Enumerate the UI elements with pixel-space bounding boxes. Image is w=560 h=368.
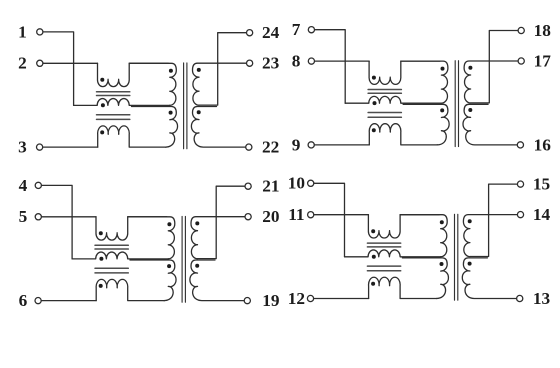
phase dot primary upper T2 bbox=[441, 67, 445, 71]
choke core lines (upper pair) T2 bbox=[368, 90, 401, 94]
pin 22 terminal circle bbox=[246, 144, 252, 150]
pin 3 terminal circle bbox=[37, 144, 43, 150]
secondary winding T2 lower half and wire to pin 16 bbox=[463, 104, 517, 145]
phase dot primary lower T2 bbox=[440, 108, 444, 112]
primary winding T4 upper half bbox=[400, 215, 447, 257]
transformer T1 core bbox=[184, 63, 187, 149]
choke winding T1B (middle, 3 turns) bbox=[74, 99, 170, 106]
pin 12 terminal circle bbox=[307, 295, 313, 301]
svg-text:12: 12 bbox=[288, 289, 305, 308]
pin 1 terminal circle bbox=[37, 29, 43, 35]
phase dot primary lower T4 bbox=[440, 262, 444, 266]
phase dot winding T2C bbox=[372, 128, 376, 132]
phase dot winding T2A bbox=[372, 76, 376, 80]
secondary winding T4 upper half and wire to pin 14 bbox=[463, 215, 517, 257]
svg-text:7: 7 bbox=[292, 20, 301, 39]
primary winding T2 upper half bbox=[401, 61, 448, 103]
phase dot winding T1C bbox=[100, 130, 104, 134]
svg-text:2: 2 bbox=[18, 54, 27, 73]
phase dot secondary lower T3 bbox=[195, 264, 199, 268]
phase dot winding T4A bbox=[371, 229, 375, 233]
phase dot primary lower T1 bbox=[169, 111, 173, 115]
phase dot secondary lower T4 bbox=[468, 262, 472, 266]
secondary winding T4 lower half and wire to pin 13 bbox=[462, 258, 516, 299]
pin 23 terminal circle bbox=[247, 60, 253, 66]
phase dot winding T4B bbox=[372, 255, 376, 259]
transformer T3 core bbox=[182, 216, 185, 302]
pin 14 terminal circle bbox=[517, 212, 523, 218]
pin 20 terminal circle bbox=[245, 214, 251, 220]
pin 16 terminal circle bbox=[517, 142, 523, 148]
wire pin 12 to choke winding bbox=[314, 298, 369, 300]
svg-text:1: 1 bbox=[18, 22, 27, 41]
phase dot winding T3A bbox=[99, 231, 103, 235]
phase dot winding T4C bbox=[371, 282, 375, 286]
choke winding T1C (bottom, 3 turns) bbox=[98, 126, 166, 147]
svg-text:6: 6 bbox=[19, 291, 28, 310]
choke winding T4B (middle, 3 turns) bbox=[345, 250, 441, 257]
svg-text:20: 20 bbox=[262, 207, 279, 226]
svg-text:19: 19 bbox=[262, 291, 280, 310]
choke core lines (lower pair) T4 bbox=[367, 266, 400, 271]
secondary winding T1 upper half and wire to pin 23 bbox=[193, 63, 247, 105]
choke core lines (upper pair) T3 bbox=[95, 245, 128, 249]
choke winding T1A (top, 3 turns) bbox=[97, 63, 168, 86]
pin 6 terminal circle bbox=[35, 298, 41, 304]
choke core lines (upper pair) T4 bbox=[367, 243, 400, 247]
phase dot secondary lower T2 bbox=[468, 108, 472, 112]
choke winding T2B (middle, 3 turns) bbox=[345, 96, 441, 103]
wire pin 3 to choke winding bbox=[43, 146, 98, 148]
wire pin 11 to choke winding bbox=[314, 214, 369, 216]
secondary winding T3 upper half and wire to pin 20 bbox=[191, 217, 245, 259]
svg-text:15: 15 bbox=[533, 175, 550, 194]
pin 13 terminal circle bbox=[517, 295, 523, 301]
pin 11 terminal circle bbox=[308, 212, 314, 218]
primary winding T1 upper half bbox=[129, 63, 176, 105]
svg-text:14: 14 bbox=[533, 205, 551, 224]
choke winding T3A (top, 3 turns) bbox=[96, 217, 167, 240]
phase dot primary upper T1 bbox=[169, 69, 173, 73]
phase dot secondary lower T1 bbox=[197, 110, 201, 114]
choke winding T4C (bottom, 3 turns) bbox=[369, 277, 437, 298]
svg-text:11: 11 bbox=[288, 205, 304, 224]
svg-text:13: 13 bbox=[533, 289, 551, 308]
svg-text:4: 4 bbox=[19, 176, 28, 195]
transformer unit T1 bbox=[18, 22, 279, 156]
choke core lines (lower pair) T1 bbox=[97, 115, 130, 120]
phase dot secondary upper T2 bbox=[468, 66, 472, 70]
svg-text:16: 16 bbox=[534, 135, 552, 154]
wire pin 6 to choke winding bbox=[41, 300, 96, 302]
pin 10 terminal circle bbox=[308, 180, 314, 186]
pin 5 terminal circle bbox=[35, 214, 41, 220]
pin 18 terminal circle bbox=[518, 27, 524, 33]
pin 19 terminal circle bbox=[244, 298, 250, 304]
svg-text:21: 21 bbox=[262, 177, 279, 196]
pin 17 terminal circle bbox=[518, 58, 524, 64]
svg-text:3: 3 bbox=[18, 138, 27, 157]
primary winding T2 lower half bbox=[403, 104, 449, 145]
pin 24 terminal circle bbox=[247, 30, 253, 36]
phase dot primary lower T3 bbox=[167, 264, 171, 268]
transformer unit T4 bbox=[288, 174, 551, 308]
phase dot winding T2B bbox=[373, 101, 377, 105]
phase dot winding T3C bbox=[99, 284, 103, 288]
phase dot primary upper T3 bbox=[167, 222, 171, 226]
svg-text:18: 18 bbox=[534, 21, 552, 40]
secondary winding T2 upper half and wire to pin 17 bbox=[464, 61, 518, 103]
phase dot primary upper T4 bbox=[440, 220, 444, 224]
phase dot winding T1A bbox=[100, 78, 104, 82]
primary winding T1 lower half bbox=[132, 107, 178, 148]
primary winding T3 upper half bbox=[128, 217, 175, 259]
choke winding T2C (bottom, 3 turns) bbox=[369, 124, 437, 145]
wire pin 5 to choke winding bbox=[42, 216, 97, 218]
pin 21 terminal circle bbox=[245, 183, 251, 189]
pin 15 terminal circle bbox=[517, 181, 523, 187]
wire secondary centre tap to pin 24 bbox=[199, 33, 246, 105]
choke winding T2A (top, 3 turns) bbox=[369, 61, 440, 84]
svg-text:10: 10 bbox=[288, 174, 305, 193]
wire pin 7 to winding T2A tap bbox=[315, 30, 346, 104]
choke core lines (lower pair) T3 bbox=[95, 268, 128, 273]
phase dot secondary upper T3 bbox=[195, 221, 199, 225]
choke core lines (lower pair) T2 bbox=[368, 113, 401, 118]
phase dot secondary upper T1 bbox=[197, 68, 201, 72]
choke winding T4A (top, 3 turns) bbox=[368, 215, 439, 238]
pin 9 terminal circle bbox=[308, 142, 314, 148]
transformer T4 core bbox=[455, 214, 458, 300]
svg-text:8: 8 bbox=[292, 51, 301, 70]
phase dot winding T1B bbox=[101, 103, 105, 107]
secondary winding T1 lower half and wire to pin 22 bbox=[191, 107, 245, 148]
transformer T2 core bbox=[455, 61, 458, 147]
svg-text:24: 24 bbox=[262, 23, 280, 42]
choke core lines (upper pair) T1 bbox=[97, 92, 130, 96]
phase dot secondary upper T4 bbox=[468, 219, 472, 223]
svg-text:22: 22 bbox=[262, 138, 279, 157]
wire pin 10 to winding T4A tap bbox=[314, 183, 345, 257]
choke winding T3B (middle, 3 turns) bbox=[72, 252, 168, 259]
pin 7 terminal circle bbox=[308, 27, 314, 33]
svg-text:23: 23 bbox=[262, 54, 280, 73]
svg-text:17: 17 bbox=[534, 51, 552, 70]
secondary winding T3 lower half and wire to pin 19 bbox=[190, 260, 244, 301]
svg-text:9: 9 bbox=[292, 135, 301, 154]
phase dot winding T3B bbox=[99, 257, 103, 261]
primary winding T4 lower half bbox=[402, 258, 448, 299]
wire pin 8 to choke winding bbox=[315, 60, 370, 62]
wire pin 4 to winding T3A tap bbox=[42, 185, 73, 259]
choke winding T3C (bottom, 3 turns) bbox=[96, 279, 164, 300]
wire secondary centre tap to pin 15 bbox=[470, 184, 517, 256]
wire pin 9 to choke winding bbox=[314, 144, 369, 146]
pin 8 terminal circle bbox=[308, 58, 314, 64]
wire secondary centre tap to pin 21 bbox=[198, 186, 245, 258]
transformer unit T2 bbox=[292, 20, 551, 154]
wire secondary centre tap to pin 18 bbox=[471, 31, 518, 103]
pin 2 terminal circle bbox=[37, 60, 43, 66]
svg-text:5: 5 bbox=[19, 207, 28, 226]
wire pin 1 to winding T1A tap bbox=[43, 32, 74, 106]
pin 4 terminal circle bbox=[35, 182, 41, 188]
wire pin 2 to choke winding bbox=[43, 62, 98, 64]
transformer unit T3 bbox=[19, 176, 280, 310]
primary winding T3 lower half bbox=[130, 260, 176, 301]
